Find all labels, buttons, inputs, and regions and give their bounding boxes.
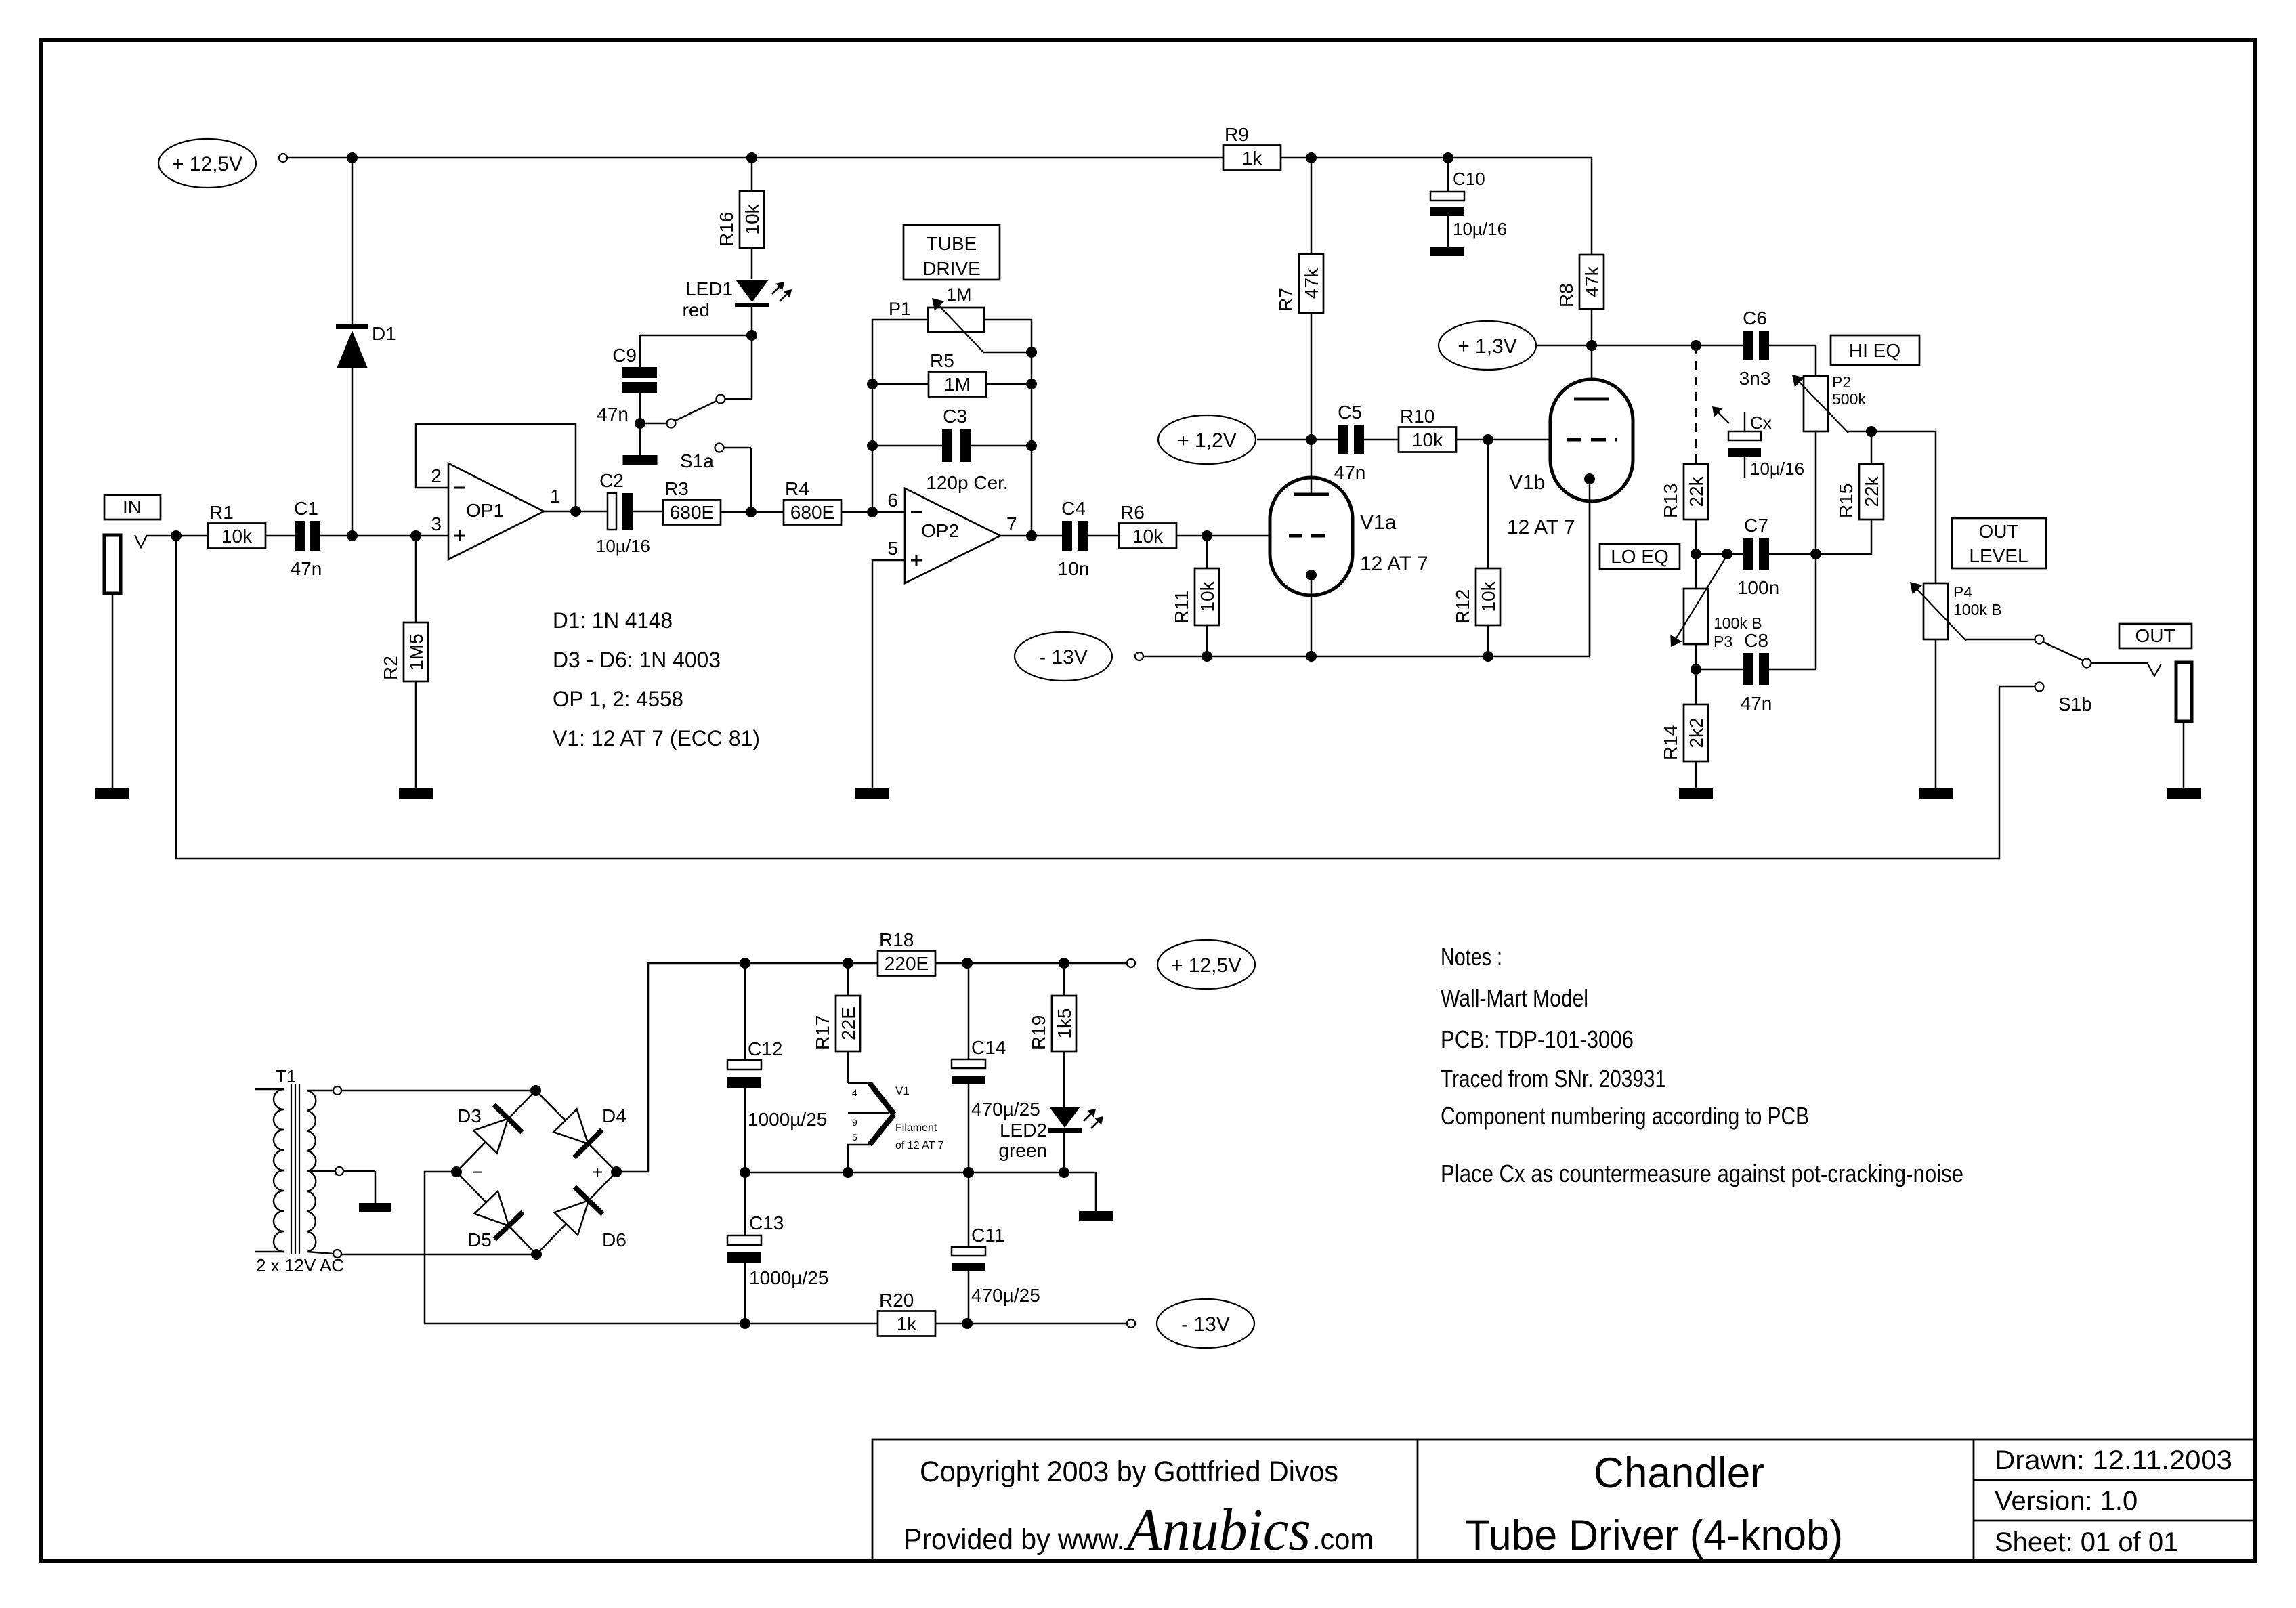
svg-text:D3: D3: [457, 1105, 482, 1126]
svg-text:5: 5: [852, 1132, 857, 1143]
terminal secondary center: [335, 1167, 343, 1175]
wire OP1 feedback: [416, 424, 576, 511]
svg-text:47n: 47n: [1741, 693, 1772, 714]
svg-text:10µ/16: 10µ/16: [596, 536, 650, 556]
svg-text:V1: 12 AT 7 (ECC 81): V1: 12 AT 7 (ECC 81): [553, 726, 760, 750]
svg-text:C9: C9: [612, 345, 637, 366]
potentiometer P4: [1910, 582, 2035, 788]
svg-text:C4: C4: [1061, 498, 1086, 519]
svg-text:R13: R13: [1660, 484, 1681, 518]
resistor R16: [716, 158, 764, 279]
capacitor Cx: [1712, 406, 1804, 479]
svg-text:10k: 10k: [1197, 580, 1218, 612]
svg-text:C3: C3: [943, 406, 967, 427]
svg-text:1M5: 1M5: [406, 633, 427, 670]
svg-text:C11: C11: [971, 1225, 1004, 1246]
capacitor C4: [1058, 498, 1119, 579]
svg-text:C13: C13: [749, 1212, 784, 1233]
svg-text:10µ/16: 10µ/16: [1453, 219, 1507, 239]
power net -13V label: [1015, 632, 1143, 681]
diode D6: [555, 1187, 626, 1250]
wire bridge minus out: [425, 1172, 878, 1324]
svg-text:5: 5: [887, 538, 898, 559]
triode V1a: [1270, 440, 1428, 656]
svg-text:Component numbering according: Component numbering according to PCB: [1441, 1102, 1809, 1130]
wire OP1 output: [544, 506, 608, 517]
svg-text:R9: R9: [1225, 124, 1249, 145]
bridge node AC top: [530, 1085, 541, 1096]
svg-text:1k: 1k: [1242, 148, 1263, 169]
svg-text:V1: V1: [895, 1084, 910, 1097]
svg-text:S1a: S1a: [680, 450, 714, 471]
svg-text:- 13V: - 13V: [1039, 646, 1088, 669]
power net -13V PSU label: [1157, 1299, 1254, 1348]
svg-text:1M: 1M: [944, 374, 971, 395]
svg-text:PCB: TDP-101-3006: PCB: TDP-101-3006: [1441, 1025, 1634, 1053]
svg-text:12 AT 7: 12 AT 7: [1507, 516, 1575, 538]
ground C10: [1430, 247, 1464, 256]
svg-text:1000µ/25: 1000µ/25: [748, 1109, 827, 1130]
svg-text:C14: C14: [971, 1037, 1006, 1058]
title Chandler text: [1594, 1450, 1764, 1497]
OUT label box: [2119, 624, 2192, 648]
capacitor C2: [596, 470, 663, 556]
svg-text:Sheet: 01 of 01: Sheet: 01 of 01: [1995, 1527, 2178, 1557]
svg-text:2k2: 2k2: [1686, 717, 1707, 748]
svg-text:Place Cx as countermeasure aga: Place Cx as countermeasure against pot-c…: [1441, 1160, 1963, 1187]
svg-text:22k: 22k: [1686, 475, 1707, 507]
capacitor C14: [952, 963, 1040, 1172]
ground OP2: [855, 788, 889, 799]
svg-text:P2: P2: [1832, 373, 1851, 391]
output jack: [2176, 662, 2192, 788]
switch S1b: [1999, 635, 2148, 715]
svg-text:7: 7: [1006, 513, 1017, 534]
wire secondary bottom to bridge: [341, 1254, 536, 1256]
output connector V: [2148, 664, 2161, 676]
power net +1,3V label: [1439, 321, 1536, 370]
svg-text:S1b: S1b: [2058, 694, 2092, 715]
bridge node plus: [592, 1162, 622, 1183]
svg-text:D1: 1N 4148: D1: 1N 4148: [553, 608, 673, 633]
resistor R20: [878, 1290, 935, 1336]
svg-text:R17: R17: [812, 1015, 833, 1050]
svg-text:C5: C5: [1338, 402, 1362, 423]
svg-text:Drawn: 12.11.2003: Drawn: 12.11.2003: [1995, 1445, 2232, 1475]
ground R2: [399, 788, 433, 799]
capacitor C5: [1311, 402, 1399, 483]
svg-text:−: −: [472, 1162, 483, 1183]
potentiometer P3: [1670, 554, 1762, 675]
svg-text:OUT: OUT: [1978, 521, 2018, 542]
svg-text:Filament: Filament: [895, 1122, 937, 1134]
terminal secondary top: [333, 1086, 341, 1095]
svg-text:green: green: [998, 1140, 1047, 1161]
wire +12,5V raw rail: [935, 958, 1135, 969]
svg-text:Chandler: Chandler: [1594, 1450, 1764, 1497]
svg-text:470µ/25: 470µ/25: [971, 1099, 1040, 1120]
svg-text:R1: R1: [209, 502, 234, 523]
ground R14: [1679, 788, 1713, 799]
svg-text:of 12 AT 7: of 12 AT 7: [895, 1140, 944, 1151]
svg-text:HI EQ: HI EQ: [1849, 340, 1900, 361]
wire signal return: [176, 536, 1999, 858]
power net +1,2V label: [1158, 415, 1317, 464]
svg-text:Notes :: Notes :: [1441, 943, 1502, 971]
capacitor C12: [727, 963, 827, 1171]
parts list note: [553, 608, 760, 750]
svg-text:3n3: 3n3: [1739, 368, 1771, 389]
svg-text:P1: P1: [889, 299, 911, 319]
svg-text:V1b: V1b: [1509, 471, 1545, 494]
svg-text:+ 1,2V: + 1,2V: [1177, 429, 1237, 452]
svg-text:+ 1,3V: + 1,3V: [1458, 335, 1517, 358]
wire bridge plus out: [616, 958, 878, 1172]
resistor R18: [878, 929, 935, 976]
svg-text:C2: C2: [599, 470, 624, 491]
svg-text:R10: R10: [1400, 406, 1434, 427]
svg-text:+ 12,5V: + 12,5V: [1171, 954, 1241, 977]
wire feedback right vertical: [984, 320, 1037, 536]
svg-text:TUBE: TUBE: [927, 233, 977, 254]
resistor R3: [663, 478, 721, 525]
wire secondary top to bridge: [341, 1090, 536, 1092]
title block: [872, 1439, 2255, 1561]
svg-text:P4: P4: [1953, 583, 1972, 601]
svg-text:+: +: [592, 1162, 603, 1183]
svg-text:10k: 10k: [742, 203, 763, 234]
svg-text:OUT: OUT: [2135, 625, 2175, 646]
ground 0V rail: [1079, 1211, 1113, 1221]
svg-text:Anubics: Anubics: [1124, 1498, 1311, 1563]
svg-text:2: 2: [431, 465, 442, 486]
wire center tap: [343, 1171, 375, 1203]
svg-text:12 AT 7: 12 AT 7: [1360, 553, 1428, 575]
op-amp OP2: [887, 488, 1017, 583]
power net +12,5V label: [158, 139, 287, 188]
resistor R13: [1660, 464, 1708, 554]
svg-text:LO EQ: LO EQ: [1611, 546, 1669, 567]
title copyright text: [920, 1456, 1338, 1488]
svg-text:2 x 12V AC: 2 x 12V AC: [256, 1255, 344, 1275]
svg-text:680E: 680E: [670, 502, 714, 523]
svg-text:10k: 10k: [221, 526, 253, 547]
svg-text:C8: C8: [1744, 630, 1768, 651]
resistor R9: [1223, 124, 1281, 171]
svg-text:3: 3: [431, 513, 442, 534]
svg-text:- 13V: - 13V: [1181, 1313, 1230, 1336]
wire 0V rail: [740, 1167, 1096, 1211]
svg-text:R20: R20: [879, 1290, 914, 1311]
svg-text:1k5: 1k5: [1054, 1008, 1075, 1038]
svg-text:red: red: [683, 299, 710, 320]
resistor R5: [872, 350, 1032, 397]
TUBE DRIVE label box: [903, 225, 1000, 280]
resistor R14: [1660, 669, 1708, 788]
IN label box: [104, 495, 161, 520]
wire OP2 output: [1000, 530, 1062, 541]
diode D1: [336, 158, 396, 536]
svg-text:D4: D4: [602, 1105, 626, 1126]
svg-text:R16: R16: [716, 212, 737, 247]
capacitor C9: [597, 335, 752, 429]
svg-text:D3 - D6: 1N 4003: D3 - D6: 1N 4003: [553, 648, 721, 672]
svg-text:.com: .com: [1313, 1523, 1374, 1556]
terminal secondary bottom: [333, 1250, 341, 1258]
svg-text:Version: 1.0: Version: 1.0: [1995, 1486, 2138, 1516]
wire R6 to V1a grid: [1176, 530, 1270, 541]
svg-text:D1: D1: [372, 323, 396, 344]
svg-text:R11: R11: [1171, 591, 1192, 624]
wire R4 to OP2 pin6: [841, 507, 905, 517]
ground P4: [1919, 788, 1953, 799]
svg-text:1k: 1k: [897, 1313, 918, 1334]
svg-text:C7: C7: [1744, 515, 1768, 536]
svg-text:220E: 220E: [885, 953, 929, 974]
svg-text:DRIVE: DRIVE: [922, 258, 981, 279]
svg-text:LED2: LED2: [1000, 1120, 1047, 1141]
capacitor C8: [1696, 554, 1816, 714]
tube filament V1: [848, 1083, 944, 1172]
svg-text:R3: R3: [664, 478, 689, 499]
title sheet text: [1995, 1527, 2178, 1557]
resistor R7: [1275, 158, 1323, 440]
HI EQ label box: [1831, 335, 1919, 365]
wire +1,3V node: [1536, 340, 1743, 351]
svg-text:47n: 47n: [291, 558, 322, 579]
notes text: [1441, 943, 1963, 1187]
bridge node AC bottom: [531, 1249, 542, 1260]
resistor R6: [1119, 502, 1176, 549]
diode D3: [457, 1105, 522, 1153]
resistor R2: [380, 536, 428, 788]
svg-text:Tube Driver (4-knob): Tube Driver (4-knob): [1465, 1512, 1843, 1559]
svg-text:C10: C10: [1453, 169, 1485, 189]
svg-text:V1a: V1a: [1360, 511, 1397, 534]
svg-text:1: 1: [550, 486, 561, 507]
svg-text:6: 6: [887, 490, 898, 511]
capacitor C6: [1739, 308, 1816, 389]
svg-text:120p Cer.: 120p Cer.: [926, 472, 1008, 493]
svg-text:22k: 22k: [1861, 475, 1882, 507]
svg-text:100k B: 100k B: [1953, 601, 2002, 618]
transformer T1: [255, 1066, 344, 1275]
LO EQ label box: [1600, 544, 1680, 569]
switch S1a: [645, 335, 752, 512]
svg-text:OP 1, 2: 4558: OP 1, 2: 4558: [553, 687, 683, 711]
svg-text:LEVEL: LEVEL: [1969, 545, 2028, 566]
svg-text:10µ/16: 10µ/16: [1750, 459, 1804, 479]
ground center tap: [359, 1203, 391, 1212]
svg-text:10k: 10k: [1478, 580, 1499, 612]
svg-text:OP2: OP2: [921, 520, 959, 541]
wire -13V rail: [1143, 479, 1590, 662]
svg-text:47k: 47k: [1301, 268, 1322, 299]
capacitor C11: [952, 1172, 1040, 1324]
diode D4: [554, 1105, 626, 1158]
wire feedback left vertical: [867, 320, 928, 512]
svg-text:+ 12,5V: + 12,5V: [172, 153, 242, 175]
svg-text:47n: 47n: [1334, 462, 1366, 483]
dashed wire Cx suggestion: [1695, 345, 1697, 464]
wire C1 to OP1 pin3: [320, 530, 448, 541]
title drawn text: [1995, 1445, 2232, 1475]
diode D5: [467, 1191, 523, 1251]
capacitor C3: [872, 406, 1032, 493]
svg-text:R7: R7: [1275, 287, 1296, 312]
resistor R11: [1171, 536, 1219, 656]
svg-text:OP1: OP1: [466, 500, 504, 521]
svg-text:IN: IN: [123, 496, 142, 517]
resistor R19: [1028, 963, 1076, 1107]
svg-text:D6: D6: [602, 1229, 626, 1250]
resistor R1: [208, 502, 265, 549]
svg-text:R19: R19: [1028, 1015, 1049, 1050]
svg-text:R6: R6: [1120, 502, 1145, 523]
svg-text:47k: 47k: [1581, 266, 1602, 297]
capacitor C10: [1430, 158, 1507, 247]
resistor R10: [1399, 406, 1456, 452]
ground C9: [623, 423, 658, 465]
capacitor C1: [265, 498, 322, 579]
svg-text:4: 4: [852, 1087, 857, 1098]
resistor R17: [812, 963, 860, 1083]
svg-text:10k: 10k: [1132, 526, 1164, 547]
capacitor C7: [1691, 515, 1821, 598]
resistor R12: [1452, 440, 1500, 656]
ground input jack: [95, 788, 129, 799]
potentiometer P2: [1792, 373, 1936, 583]
bridge node minus: [451, 1162, 483, 1183]
svg-text:C1: C1: [294, 498, 318, 519]
LED1: [683, 278, 792, 341]
title provided text: [903, 1498, 1374, 1563]
svg-text:R2: R2: [380, 656, 401, 680]
svg-text:D5: D5: [467, 1229, 492, 1250]
ground output jack: [2167, 788, 2201, 799]
svg-text:C6: C6: [1743, 308, 1767, 329]
svg-text:R5: R5: [930, 350, 954, 371]
OUT LEVEL label box: [1952, 518, 2046, 568]
svg-text:C12: C12: [748, 1038, 782, 1059]
svg-text:1M: 1M: [946, 284, 972, 305]
resistor R15: [1816, 431, 1884, 554]
svg-text:R15: R15: [1835, 484, 1856, 518]
triode V1b: [1507, 379, 1633, 656]
wire OP2 pin5 to ground: [872, 560, 905, 788]
wire R3-R4: [721, 507, 784, 517]
svg-text:10n: 10n: [1058, 558, 1090, 579]
wire bridge edges: [456, 1091, 616, 1254]
resistor R4: [784, 478, 841, 525]
resistor R8: [1556, 158, 1604, 399]
svg-text:Traced from SNr. 203931: Traced from SNr. 203931: [1441, 1065, 1666, 1093]
svg-text:Copyright 2003 by Gottfried Di: Copyright 2003 by Gottfried Divos: [920, 1456, 1338, 1488]
op-amp OP1: [431, 463, 560, 559]
wire input: [147, 530, 208, 541]
svg-text:Provided by www.: Provided by www.: [903, 1523, 1124, 1556]
title version text: [1995, 1486, 2138, 1516]
svg-text:100n: 100n: [1737, 577, 1779, 598]
wire R10 to V1b grid: [1456, 434, 1550, 445]
svg-text:R4: R4: [785, 478, 809, 499]
svg-text:R18: R18: [879, 929, 914, 950]
svg-text:R14: R14: [1660, 725, 1681, 760]
svg-text:Cx: Cx: [1750, 412, 1772, 433]
wire -13V raw rail: [740, 1318, 1135, 1329]
svg-text:10k: 10k: [1412, 429, 1443, 450]
svg-text:R12: R12: [1452, 589, 1473, 624]
svg-text:500k: 500k: [1832, 390, 1866, 408]
svg-text:47n: 47n: [597, 404, 629, 425]
power net +12,5V PSU label: [1157, 940, 1255, 989]
svg-text:1000µ/25: 1000µ/25: [749, 1267, 828, 1288]
svg-text:680E: 680E: [790, 502, 834, 523]
svg-text:22E: 22E: [838, 1007, 859, 1040]
svg-text:LED1: LED1: [685, 278, 733, 299]
svg-text:9: 9: [852, 1117, 857, 1128]
svg-text:Wall-Mart Model: Wall-Mart Model: [1441, 984, 1588, 1012]
svg-text:R8: R8: [1556, 283, 1577, 308]
svg-text:470µ/25: 470µ/25: [971, 1285, 1040, 1306]
svg-text:T1: T1: [276, 1066, 296, 1086]
potentiometer P1: [889, 284, 1032, 353]
input connector V: [135, 535, 147, 547]
title Tube Driver text: [1465, 1512, 1843, 1559]
input jack: [104, 535, 121, 788]
capacitor C13: [727, 1171, 828, 1324]
wire +12,5V rail: [287, 152, 1592, 163]
LED2: [998, 1107, 1103, 1172]
svg-text:P3: P3: [1714, 633, 1732, 650]
